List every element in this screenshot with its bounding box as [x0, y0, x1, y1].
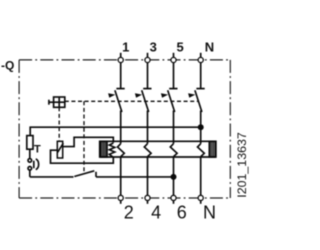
svg-text:5: 5	[176, 40, 183, 55]
svg-text:N: N	[203, 203, 216, 223]
svg-text:4: 4	[151, 203, 161, 223]
svg-text:6: 6	[177, 203, 187, 223]
svg-text:2: 2	[124, 203, 134, 223]
svg-text:1: 1	[122, 40, 129, 55]
svg-text:3: 3	[150, 40, 157, 55]
svg-text:T: T	[34, 143, 41, 155]
svg-text:I201_13637: I201_13637	[235, 132, 249, 198]
svg-text:N: N	[205, 40, 214, 55]
svg-text:-Q: -Q	[1, 58, 14, 72]
